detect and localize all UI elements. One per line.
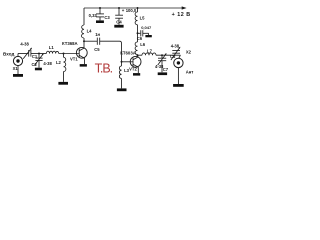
- svg-text:4-38: 4-38: [43, 61, 52, 66]
- svg-text:L3: L3: [124, 68, 130, 73]
- connector X1: [13, 56, 22, 65]
- svg-text:X1: X1: [13, 66, 19, 71]
- transistor VT2 emitter arrow: [133, 64, 138, 67]
- svg-text:C6: C6: [137, 36, 143, 41]
- transistor VT1 base bar: [78, 49, 80, 58]
- svg-text:L6: L6: [140, 42, 146, 47]
- node L5 rail junction: [137, 7, 139, 9]
- inductor L3: [119, 66, 121, 79]
- svg-text:L7: L7: [147, 49, 153, 54]
- transistor VT2 collector: [133, 57, 138, 60]
- svg-text:4-38: 4-38: [20, 42, 29, 47]
- node L2 junction: [63, 53, 65, 55]
- wire L3 to ground: [121, 79, 123, 89]
- svg-text:КТ368А: КТ368А: [62, 41, 78, 46]
- inductor L7: [142, 53, 156, 55]
- wire VT1 emitter to ground: [84, 58, 86, 64]
- transistor VT1 emitter arrow: [79, 55, 84, 58]
- node collector VT1 junction: [83, 40, 85, 42]
- svg-text:4-38: 4-38: [171, 43, 180, 48]
- node VT2 base junction: [121, 61, 123, 63]
- inductor L4: [82, 25, 84, 38]
- wire C1 to node: [31, 53, 47, 55]
- wire node to L3: [121, 62, 123, 66]
- wire rail to L5: [137, 8, 139, 12]
- capacitor C7 variable 4-38: [161, 55, 163, 58]
- node C2 junction: [38, 53, 40, 55]
- transistor Q1 VT1 body: [76, 47, 87, 58]
- inductor L6: [135, 42, 137, 55]
- wire L2 to ground: [63, 72, 65, 82]
- inductor L5: [135, 12, 137, 25]
- svg-text:C7: C7: [163, 67, 169, 72]
- svg-text:C4: C4: [116, 19, 122, 24]
- svg-text:Х2: Х2: [186, 50, 192, 55]
- svg-text:L1: L1: [49, 45, 55, 50]
- svg-text:VT1: VT1: [70, 57, 78, 62]
- transistor Q2 VT2 body: [130, 56, 141, 67]
- ground VT1 emitter: [80, 64, 87, 67]
- node C6 junction: [137, 32, 139, 34]
- svg-text:C2: C2: [32, 62, 38, 67]
- node C4 rail junction: [118, 7, 120, 9]
- capacitor C1 variable 4-38: [28, 50, 30, 57]
- node VT2 collector junction: [137, 54, 139, 56]
- svg-text:0,047: 0,047: [141, 25, 152, 30]
- wire C5 to VT2 base: [100, 41, 122, 62]
- capacitor C8 variable 4-38: [172, 50, 180, 52]
- svg-text:Ант: Ант: [186, 69, 194, 74]
- ground X1: [13, 74, 23, 77]
- capacitor C6: [138, 32, 141, 34]
- wire X1 shell to ground: [17, 66, 19, 74]
- wire X1 to C1: [17, 54, 19, 57]
- svg-text:+ 12 В: + 12 В: [172, 12, 191, 18]
- svg-text:L4: L4: [87, 29, 93, 34]
- ground X2: [173, 84, 184, 87]
- wire +12V top rail: [84, 7, 183, 9]
- ground C6: [145, 35, 151, 37]
- capacitor C3: [99, 8, 101, 14]
- node rail-corner: [83, 8, 85, 25]
- wire L1 to base: [59, 53, 79, 55]
- wire input: [18, 53, 28, 55]
- wire VT2 collector to node: [137, 55, 139, 57]
- ground L2: [58, 82, 68, 85]
- inductor L1: [46, 51, 58, 53]
- capacitor C4: [118, 8, 120, 15]
- ground C7: [158, 72, 167, 75]
- wire base VT2: [122, 61, 134, 63]
- svg-text:0,33: 0,33: [89, 13, 98, 18]
- transistor VT2 base bar: [132, 58, 134, 67]
- svg-text:C3: C3: [104, 15, 110, 20]
- svg-text:C5: C5: [94, 47, 100, 52]
- ground C2: [35, 68, 42, 71]
- svg-text:Т.В.: Т.В.: [95, 62, 113, 76]
- svg-text:100,0: 100,0: [126, 8, 137, 13]
- node C3 rail junction: [99, 7, 101, 9]
- transistor VT1 collector: [79, 48, 84, 51]
- svg-text:L2: L2: [56, 60, 62, 65]
- capacitor C5: [96, 38, 98, 45]
- ground L3: [117, 88, 127, 91]
- inductor L2: [64, 57, 66, 71]
- svg-text:КТ603А: КТ603А: [120, 51, 136, 56]
- wire node to L2: [63, 54, 65, 58]
- arrow +12V: [182, 6, 187, 9]
- ground C3: [96, 20, 104, 23]
- capacitor C2 variable 4-38: [38, 54, 40, 58]
- connector X2: [174, 58, 183, 67]
- wire L4-collector: [83, 38, 85, 48]
- wire X2 shell to ground: [177, 68, 179, 84]
- svg-text:L5: L5: [140, 15, 146, 20]
- wire VT2 emitter to ground: [137, 67, 139, 73]
- wire C5 link: [84, 40, 97, 42]
- ground VT2 emitter: [133, 73, 140, 76]
- wire L5 to L6: [137, 25, 139, 42]
- svg-text:VT2: VT2: [129, 66, 137, 71]
- wire L7 to output: [156, 54, 180, 56]
- svg-text:C8: C8: [170, 54, 176, 59]
- svg-text:1н: 1н: [95, 32, 100, 37]
- svg-text:Вход: Вход: [3, 52, 14, 57]
- svg-text:C1: C1: [32, 54, 38, 59]
- wire collector to L7: [138, 54, 143, 56]
- node C7 junction: [161, 54, 163, 56]
- svg-text:+: +: [122, 8, 125, 13]
- wire to X2: [179, 55, 181, 58]
- ground C4: [114, 25, 123, 28]
